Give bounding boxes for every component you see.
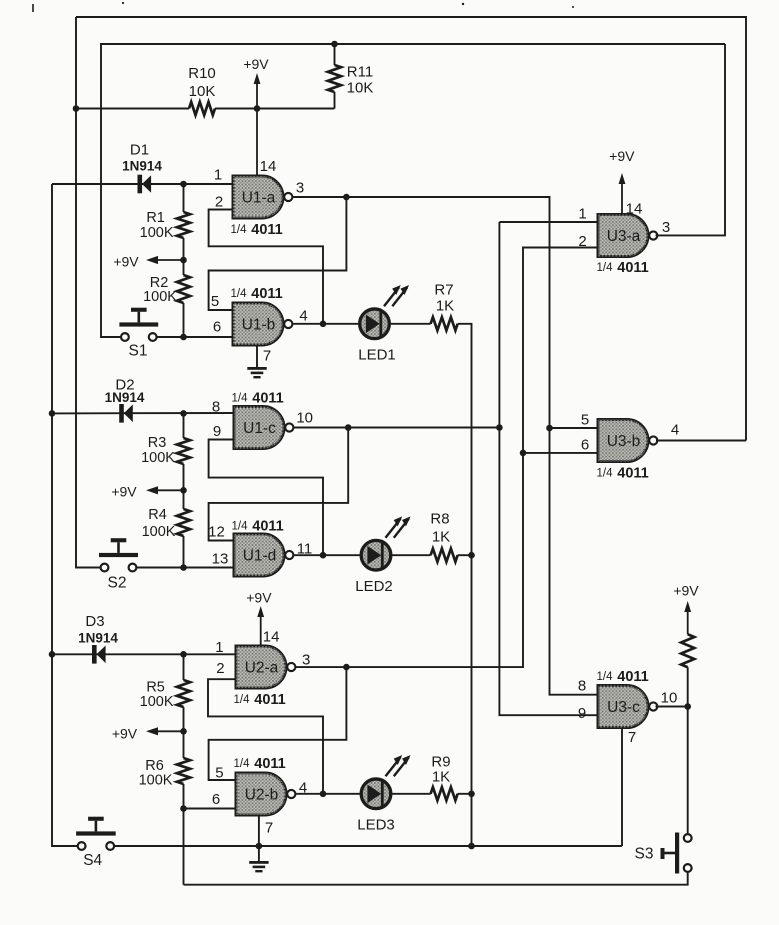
svg-text:1K: 1K [436, 297, 454, 314]
wire vertical B (U1-c out to U3-a pin1 / U3-c pin 9) [499, 222, 598, 715]
label 1/4 4011 for U3-c [597, 669, 649, 685]
wire R3/R4 column [183, 413, 185, 567]
resistor R5 100K [140, 680, 190, 711]
label 1/4 4011 for U1-b [231, 286, 283, 302]
svg-text:4: 4 [299, 307, 307, 324]
LED LED2 [355, 516, 410, 595]
wire to U3-b pin 5 [550, 427, 599, 429]
wire U1-a pin 2 crosscouple to U1-b output [209, 210, 323, 324]
svg-text:D3: D3 [85, 613, 104, 630]
label 1/4 4011 for U2-b [234, 756, 286, 772]
gate U1-a (1/4 4011 NAND) [214, 158, 304, 238]
svg-text:1K: 1K [432, 768, 450, 785]
LED LED1 [358, 285, 409, 363]
svg-text:LED1: LED1 [358, 346, 396, 363]
svg-text:9: 9 [213, 423, 221, 440]
svg-text:5: 5 [581, 411, 589, 428]
svg-text:R4: R4 [148, 507, 167, 523]
svg-text:1/4: 1/4 [234, 758, 251, 770]
wire R1/R2 column x=183.5 [183, 184, 185, 337]
+9V supply arrow (R1/R2 midpoint) [113, 254, 183, 270]
wire D2 row to U1-c pin 8 [52, 412, 234, 414]
diode D3 1N914 (cathode left) [78, 613, 118, 664]
svg-text:R7: R7 [434, 281, 453, 298]
svg-text:4011: 4011 [251, 286, 282, 302]
resistor R1 100K [140, 210, 190, 241]
svg-text:6: 6 [212, 791, 220, 808]
diode D2 1N914 (cathode left) [105, 376, 145, 422]
junction R5/R6 +9V tap [180, 728, 187, 735]
resistor R11 10K [328, 44, 373, 109]
gate U3-b (1/4 4011 NAND) [581, 411, 679, 481]
wire U1-c output 10 to U3-a pin 1 / U3-c pin 9 vertical [294, 427, 500, 429]
wire U1-b pin 7 to ground [256, 345, 258, 367]
svg-text:U1-a: U1-a [242, 190, 276, 207]
svg-text:1K: 1K [432, 528, 450, 545]
wire U1-c output crosscouple to U1-d pin 12 [209, 428, 349, 541]
junction R9 / cathode vertical [468, 791, 475, 798]
svg-text:3: 3 [302, 651, 310, 668]
junction +9V rail / left vertical [73, 105, 80, 112]
svg-text:100K: 100K [143, 289, 177, 305]
+9V supply arrow (R5/R6 midpoint) [112, 726, 184, 742]
svg-text:4011: 4011 [254, 756, 285, 772]
svg-text:S1: S1 [129, 343, 148, 360]
wire U2-b pin 7 to ground / S4 rail [258, 815, 260, 861]
wire D3 row to U2-a pin 1 [52, 653, 236, 655]
svg-text:14: 14 [626, 200, 643, 217]
svg-text:1/4: 1/4 [232, 521, 249, 533]
wire U2-a output 3 to U3-b pin 6 / U3-a pin 2 [296, 248, 599, 668]
svg-text:LED3: LED3 [357, 816, 395, 833]
svg-text:+9V: +9V [112, 726, 138, 742]
wire U1-a output 3 to U3-b pin 5 / U3-c pin 8 [293, 197, 599, 695]
label 1/4 4011 for U1-d [232, 519, 284, 535]
svg-text:U2-a: U2-a [245, 660, 279, 677]
label 1/4 4011 for U3-a [597, 260, 649, 276]
pushbutton switch S3 (vertical) [635, 833, 692, 874]
junction crosscouple / U2-b output row [320, 791, 327, 798]
svg-text:+9V: +9V [243, 56, 269, 72]
wire to U3-a pin 1 [499, 221, 598, 223]
svg-text:+9V: +9V [246, 590, 272, 606]
wire S2 to U1-d pin 13 [136, 567, 235, 569]
wire U3-c output 10 [656, 706, 688, 708]
pushbutton switch S1 [119, 308, 158, 360]
resistor R4 100K [142, 507, 191, 540]
gate U2-b (1/4 4011 NAND) [212, 756, 307, 836]
svg-text:1: 1 [215, 639, 223, 656]
junction D2 row / R3 top [180, 410, 187, 417]
svg-text:8: 8 [578, 677, 586, 694]
wire U2-b output row / LED3 / R9 [296, 793, 472, 795]
svg-text:U1-d: U1-d [243, 548, 277, 565]
label 1/4 4011 for U2-a [234, 692, 286, 708]
junction x=52 / D3 row [49, 651, 56, 658]
wire D1 row to U1-a pin 1 [52, 183, 233, 185]
svg-text:R11: R11 [347, 63, 373, 80]
svg-text:LED2: LED2 [355, 578, 393, 595]
wire bottom rail to S3 bottom [184, 872, 688, 885]
svg-text:+9V: +9V [609, 148, 635, 164]
wire U2-a output crosscouple to U2-b pin 5 [209, 667, 347, 780]
svg-text:1/4: 1/4 [597, 671, 614, 683]
junction R1/R2 +9V tap [180, 257, 187, 264]
svg-text:D1: D1 [130, 141, 149, 158]
resistor R6 100K [139, 758, 191, 789]
+9V supply arrow (U2-a pin 14) [246, 590, 272, 646]
svg-text:4011: 4011 [254, 692, 285, 708]
wire to U2-b pin 6 [184, 808, 237, 810]
pushbutton switch S2 [99, 538, 138, 591]
svg-text:1N914: 1N914 [78, 630, 118, 645]
svg-text:1/4: 1/4 [231, 224, 248, 236]
svg-text:6: 6 [581, 437, 589, 454]
svg-text:1N914: 1N914 [122, 158, 162, 173]
+9V supply arrow (U3-a pin 14) [609, 148, 635, 214]
svg-text:10: 10 [296, 409, 313, 426]
svg-text:4: 4 [671, 421, 679, 438]
svg-text:7: 7 [265, 819, 273, 836]
junction x=52 / D2 row [49, 410, 56, 417]
pushbutton switch S4 [76, 817, 116, 869]
svg-text:1/4: 1/4 [597, 262, 614, 274]
junction R3/R4 +9V tap [180, 487, 187, 494]
junction R6 bottom / U2-b pin 6 [180, 805, 187, 812]
svg-text:1N914: 1N914 [105, 390, 145, 405]
wire left vertical x=76 to S2 [76, 17, 101, 568]
wire U1-a output crosscouple to U1-b pin 5 [209, 197, 347, 310]
svg-text:U2-b: U2-b [245, 787, 279, 804]
wire R5/R6 column and down to bottom rail [183, 654, 185, 884]
gate U2-a (1/4 4011 NAND) [215, 628, 310, 708]
svg-text:S3: S3 [635, 846, 654, 863]
junction crosscouple / U1-b output row [320, 321, 327, 328]
svg-text:3: 3 [662, 219, 670, 236]
svg-text:1/4: 1/4 [597, 468, 614, 480]
svg-text:5: 5 [215, 764, 223, 781]
svg-text:3: 3 [296, 179, 304, 196]
wire to U3-b pin 6 [523, 452, 598, 454]
junction U1-c output / crosscouple [345, 424, 352, 431]
svg-text:2: 2 [578, 233, 586, 250]
wire +9V rail y=108 [76, 108, 335, 110]
svg-text:U3-c: U3-c [607, 699, 640, 716]
svg-text:7: 7 [628, 729, 636, 746]
junction cathode vertical / S4 wire [468, 843, 475, 850]
svg-text:14: 14 [263, 628, 280, 645]
junction crosscouple / U1-d output row [320, 552, 327, 559]
svg-text:13: 13 [212, 550, 229, 567]
wire U3-b output 4 to top rail [656, 440, 746, 442]
wire S1 to U1-b pin 6 [157, 336, 233, 338]
svg-text:U1-b: U1-b [242, 317, 276, 334]
junction vertical A / U3-b pin 5 [546, 425, 553, 432]
junction +9V rail / U1-a pin14 stem [254, 105, 261, 112]
junction U1-a output / crosscouple [343, 194, 350, 201]
resistor R9 1K [431, 753, 458, 800]
svg-text:1/4: 1/4 [231, 288, 248, 300]
gate U1-c (1/4 4011 NAND) [212, 391, 313, 449]
svg-text:100K: 100K [140, 225, 174, 241]
svg-text:R1: R1 [146, 210, 165, 226]
resistor R8 1K [430, 510, 457, 561]
svg-text:1: 1 [214, 166, 222, 183]
junction U2-a output / crosscouple [343, 664, 350, 671]
svg-text:5: 5 [211, 293, 219, 310]
wire top rail (U3-b output feedback to S2 line) [76, 17, 746, 441]
junction U2-b pin 7 / S4 rail [256, 843, 263, 850]
diode D1 1N914 (cathode left) [122, 141, 162, 193]
svg-text:S2: S2 [108, 575, 127, 592]
svg-text:8: 8 [212, 398, 220, 415]
svg-text:100K: 100K [139, 773, 173, 789]
wire U1-b output row / LED1 / R7 to common cathode vertical [293, 324, 472, 846]
svg-text:100K: 100K [142, 524, 176, 540]
junction D1 row / R1 top [180, 181, 187, 188]
resistor R10 10K [188, 65, 216, 115]
gate U1-d (1/4 4011 NAND) [208, 519, 312, 576]
svg-text:4011: 4011 [617, 260, 648, 276]
svg-text:R10: R10 [188, 65, 216, 82]
LED LED3 [357, 755, 410, 833]
svg-text:4011: 4011 [252, 391, 283, 407]
label 1/4 4011 for U1-c [232, 391, 284, 407]
gate U3-c (1/4 4011 NAND) [578, 669, 678, 746]
junction R2 bottom / S1 / U1-b pin 6 [180, 334, 187, 341]
ground ground U2-b pin 7 [249, 861, 268, 872]
wire second rail (U3-a output feedback to S1) [101, 44, 725, 337]
+9V supply arrow (S3 pullup) [673, 583, 699, 635]
junction R11 / second rail [331, 41, 338, 48]
svg-text:R3: R3 [148, 435, 167, 451]
svg-text:U3-a: U3-a [607, 228, 641, 245]
svg-text:+9V: +9V [673, 583, 699, 599]
svg-text:+9V: +9V [111, 484, 137, 500]
svg-text:2: 2 [215, 193, 223, 210]
svg-text:4011: 4011 [252, 519, 283, 535]
svg-text:1/4: 1/4 [232, 393, 249, 405]
svg-text:9: 9 [578, 705, 586, 722]
svg-text:7: 7 [263, 347, 271, 364]
wire S4 to U3-c pin 7 rail [114, 845, 622, 847]
svg-text:U3-b: U3-b [607, 433, 641, 450]
svg-text:6: 6 [213, 318, 221, 335]
svg-text:+9V: +9V [113, 254, 139, 270]
svg-text:U1-c: U1-c [243, 420, 276, 437]
gate U3-a (1/4 4011 NAND) [578, 200, 670, 276]
wire U3-c pin 7 to S4 rail [621, 728, 623, 847]
wire U1-c pin 9 crosscouple to U1-d output [209, 440, 323, 556]
svg-text:4011: 4011 [617, 466, 648, 482]
svg-text:100K: 100K [141, 450, 175, 466]
+9V supply arrow (top, U1-a pin 14) [243, 56, 269, 176]
svg-text:10K: 10K [189, 83, 216, 100]
svg-text:1/4: 1/4 [234, 694, 251, 706]
wire U1-d output row / LED2 / R8 [294, 554, 472, 556]
ground ground U1-b pin 7 [247, 367, 266, 378]
resistor R3 100K [141, 435, 190, 466]
svg-text:10: 10 [661, 689, 678, 706]
svg-text:100K: 100K [140, 694, 174, 710]
svg-text:S4: S4 [83, 852, 102, 869]
junction vertical C / U3-b pin 6 [520, 450, 527, 457]
svg-text:14: 14 [260, 158, 277, 175]
junction R4 bottom / S2 / U1-d pin 13 [180, 564, 187, 571]
resistor R2 100K [143, 275, 190, 305]
wire leftmost vertical x=52 (D-row common to S4) [52, 184, 78, 846]
junction U1-c output wire / vertical B [496, 424, 503, 431]
svg-text:1: 1 [578, 205, 586, 222]
svg-text:4011: 4011 [251, 222, 282, 238]
wire pullup to S3 top [687, 667, 689, 834]
svg-text:R8: R8 [430, 510, 449, 527]
junction D3 row / R5 top [180, 651, 187, 658]
svg-text:2: 2 [216, 660, 224, 677]
+9V supply arrow (R3/R4 midpoint) [111, 484, 183, 500]
label 1/4 4011 for U1-a [231, 222, 283, 238]
resistor (S3 pullup, unlabeled) [681, 634, 694, 667]
svg-text:4011: 4011 [617, 669, 648, 685]
junction R8 / cathode vertical [468, 552, 475, 559]
wire U2-a pin 2 crosscouple to U2-b output [208, 679, 323, 794]
resistor R7 1K [431, 281, 458, 330]
wire U3-a output 3 to second rail [656, 44, 726, 235]
svg-text:12: 12 [208, 523, 225, 540]
label 1/4 4011 for U3-b [597, 466, 649, 482]
junction U3-c output / pullup / S3 [684, 703, 691, 710]
svg-text:10K: 10K [347, 79, 374, 96]
gate U1-b (1/4 4011 NAND) [211, 286, 308, 364]
